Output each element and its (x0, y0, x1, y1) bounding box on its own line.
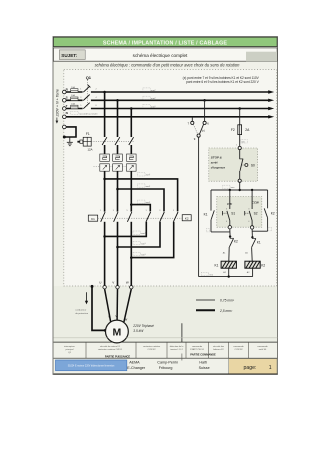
wire gauge label on K2 feed 1 (138, 173, 151, 177)
node T drop junction (130, 107, 133, 110)
svg-text:S1024 E moteur 220V bidirectio: S1024 E moteur 220V bidirectionnel inver… (68, 365, 115, 368)
node jumper tap on S bus (203, 99, 206, 102)
svg-text:Q1: Q1 (86, 75, 92, 80)
wire K2 feed line 1 (105, 179, 178, 212)
svg-text:contacteur rotation CW K1: contacteur rotation CW K1 (98, 348, 123, 351)
svg-text:AEMA: AEMA (129, 361, 140, 365)
wire F2 to STOP terminal 1 (239, 135, 241, 147)
svg-text:interrupteur: interrupteur (64, 345, 75, 348)
wire K1 pole2 to merge B (117, 222, 119, 247)
terminal S1 box bottom (228, 226, 231, 229)
svg-text:10A: 10A (71, 86, 75, 89)
legend thick wire 2.5mm (196, 309, 233, 313)
coil K1 (215, 261, 237, 268)
F1 thermal element pole 2 (113, 154, 123, 161)
wire gauge label below STOP (223, 185, 235, 189)
supply terminal R (63, 87, 69, 93)
header green title bar (53, 37, 277, 46)
wire K2 feed line 3 (131, 205, 150, 212)
wire K2 feed line 2 (118, 189, 165, 211)
company country Haiti Suisse (199, 361, 210, 371)
breaker F1 contact pole 2 (115, 137, 120, 145)
node branch CW join (229, 235, 231, 237)
wire K1 aux branch drop (210, 190, 212, 211)
legend cell S0 text (257, 346, 268, 351)
svg-text:N: N (66, 111, 68, 115)
contactor K1 coil-link box (88, 215, 97, 221)
svg-text:START CW S1: START CW S1 (190, 348, 205, 351)
mechanical linkage dashes K1 K2 (98, 217, 183, 219)
node split S2 (251, 189, 253, 191)
terminal 6 (203, 121, 209, 125)
svg-text:Haïti: Haïti (199, 361, 207, 365)
svg-text:mm²: mm² (141, 253, 146, 256)
svg-text:F1: F1 (86, 132, 90, 136)
svg-text:V: V (115, 314, 117, 318)
aux contact K2 (hold) (264, 208, 275, 231)
node coil K1 on bottom rail (228, 275, 230, 277)
svg-text:S2: S2 (254, 211, 258, 215)
contactor K2 main contact 1 (146, 210, 151, 222)
title block top border (54, 341, 278, 343)
wire T bus to fuse F2 (239, 109, 241, 125)
legend cell detection text (170, 345, 184, 351)
wire K1 pole1 to merge A (104, 222, 106, 237)
motor M1 (106, 320, 129, 343)
svg-text:principal: principal (66, 348, 74, 351)
pushbutton S1 CW (222, 211, 235, 226)
legend cell K2 text (143, 345, 161, 351)
svg-text:K2: K2 (271, 212, 275, 216)
svg-text:K1: K1 (91, 217, 95, 221)
svg-text:1: 1 (269, 365, 272, 371)
svg-text:conducteur: conducteur (75, 309, 86, 312)
svg-text:mm²: mm² (146, 201, 151, 204)
pin A2 coil K1 (223, 268, 228, 276)
svg-text:V: V (112, 281, 114, 285)
svg-text:2,5 mm²: 2,5 mm² (219, 309, 233, 313)
legend cell Q1 text (64, 345, 75, 354)
svg-text:10A: 10A (71, 94, 75, 97)
title block faint upper rule (54, 337, 278, 339)
contactor K2 main contact 3 (173, 210, 178, 222)
wire phase W down (130, 258, 132, 286)
svg-text:d'urgence: d'urgence (211, 166, 226, 170)
wire phase drop L3 (130, 109, 132, 138)
svg-text:mm²: mm² (146, 185, 151, 188)
wire K2 aux to S2 branch (252, 230, 268, 232)
svg-text:sécurité des: sécurité des (213, 345, 224, 348)
svg-text:W: W (126, 281, 129, 285)
motor terminal U (99, 281, 106, 289)
svg-text:mm: mm (209, 274, 213, 276)
wire gauge label on K2 feed 3 (138, 200, 151, 204)
breaker F1 contact pole 3 (129, 137, 134, 145)
svg-text:page:: page: (244, 365, 257, 371)
node split center (239, 189, 241, 191)
wire phase 2 F1 to K1 (117, 171, 119, 211)
wire S2 drop into box (251, 190, 253, 209)
legend cell F1 K1 text (98, 345, 123, 351)
jumper link 6 to 9 (199, 124, 203, 134)
wire gauge label on T bus (143, 104, 156, 108)
zone divider line (181, 323, 183, 342)
svg-text:SUJET:: SUJET: (61, 53, 77, 58)
Q1 pole T blade (80, 103, 97, 109)
terminal on STOP box bottom (238, 179, 241, 182)
interlock contact K1 (NC) (252, 237, 261, 247)
supply terminal S (63, 96, 68, 102)
svg-text:Camp-Perrin: Camp-Perrin (157, 361, 178, 365)
wire S1 to interlock (229, 229, 231, 237)
svg-text:K2: K2 (261, 264, 265, 268)
wire F1 pole 3 lower lead (130, 145, 132, 154)
aux contact K1 (hold) (204, 210, 215, 232)
svg-text:E-Changer: E-Changer (127, 366, 146, 370)
pin A1 coil K2 (245, 247, 252, 261)
svg-text:mm²: mm² (146, 174, 151, 177)
svg-text:12A: 12A (88, 147, 93, 151)
wire S0 to control rail split (239, 182, 241, 190)
company name AEMA (127, 361, 146, 371)
svg-text:mm²: mm² (151, 105, 156, 108)
F1 magnetic element pole 3 (127, 164, 137, 171)
svg-text:tension L1 L2: tension L1 L2 (170, 348, 183, 351)
wire K2 pole2 to merge B (118, 222, 161, 247)
wire N line full run with arrow (66, 115, 274, 118)
node merge B (116, 246, 119, 249)
PE conductor note text (75, 309, 88, 315)
wire control left rail (198, 137, 200, 276)
work area dashed border (64, 70, 277, 287)
contactor K2 coil-link box (182, 215, 191, 221)
supply terminal T (63, 104, 68, 110)
svg-text:Fribourg: Fribourg (159, 366, 173, 370)
svg-text:STOP &: STOP & (211, 155, 222, 159)
svg-text:schéma électrique : commande d: schéma électrique : commande d'un petit … (95, 63, 241, 68)
wire phase S bus with arrow (91, 99, 274, 102)
motor breaker F1 (77, 132, 133, 151)
legend cell S1 text (190, 346, 205, 351)
wire phase R bus with arrow (91, 90, 274, 93)
F1 magnetic element pole 2 (113, 164, 123, 171)
terminal on STOP box top (238, 146, 241, 149)
node PE junction (63, 136, 66, 139)
jumper dashed option 7 to 9 (193, 124, 197, 134)
svg-text:schéma électrique complet: schéma électrique complet (133, 53, 188, 58)
svg-text:PARTIE PUISSANCE: PARTIE PUISSANCE (105, 354, 130, 358)
wire gauge label on K2 feed 2 (138, 184, 151, 188)
svg-text:0,75 mm²: 0,75 mm² (220, 299, 235, 303)
node PE at frame border (91, 285, 94, 288)
svg-text:contacteur rotation: contacteur rotation (143, 345, 161, 348)
node F2 tap on T bus (238, 107, 241, 110)
page number box (229, 359, 277, 374)
wire K2 aux branch drop (267, 190, 269, 208)
Q1 pole S blade (80, 95, 97, 101)
wire control split rail (211, 189, 268, 191)
fuse F-R (71, 86, 78, 92)
wire S bus to terminal 6 (204, 100, 206, 121)
terminal S2 box bottom (250, 226, 253, 229)
svg-text:arrêt S0: arrêt S0 (259, 348, 267, 351)
svg-text:3.5 kW: 3.5 kW (133, 329, 144, 333)
wire phase T bus with arrow (91, 107, 274, 110)
company place Camp-Perrin (157, 361, 178, 371)
svg-text:K1: K1 (215, 264, 219, 268)
ground earth symbol (67, 137, 73, 146)
wire F1 pole 2 lower lead (117, 145, 119, 154)
contactor K1 main contact 3 (127, 210, 132, 222)
wire gauge label on S bus (143, 96, 156, 100)
svg-text:K1: K1 (204, 212, 208, 216)
divider between columns row 2 (181, 354, 183, 361)
svg-text:de protection: de protection (75, 312, 88, 315)
wire R terminal to fuse (66, 91, 83, 93)
svg-text:T: T (66, 104, 68, 108)
svg-text:Suisse: Suisse (199, 366, 210, 370)
fuse F2 2A (231, 125, 250, 135)
svg-text:CCW K2: CCW K2 (147, 349, 156, 351)
title block cell dividers row 1 (86, 342, 249, 358)
terminal 9 (194, 134, 200, 141)
svg-text:220V Triphasé: 220V Triphasé (132, 324, 154, 328)
pin A2 coil K2 (247, 268, 253, 276)
svg-text:CCW: CCW (252, 201, 260, 205)
wire motor lead V (116, 289, 118, 320)
subject row (53, 48, 277, 61)
svg-text:F2: F2 (231, 128, 235, 132)
svg-text:W: W (125, 318, 128, 322)
wire K1 aux to S1 branch (211, 231, 230, 233)
legend cell S2 text (233, 346, 244, 351)
wire PE loop (64, 127, 76, 137)
svg-text:S1: S1 (231, 211, 235, 215)
breaker F1 contact pole 1 (102, 137, 107, 145)
svg-text:U: U (108, 315, 110, 319)
svg-text:mm: mm (241, 142, 245, 144)
wire S terminal to fuse (66, 99, 83, 101)
node merge C (130, 256, 133, 259)
svg-text:PARTIE COMMANDE: PARTIE COMMANDE (190, 352, 216, 356)
motor terminal V (112, 281, 119, 289)
svg-text:mm: mm (231, 187, 235, 189)
svg-text:SCHEMA / IMPLANTATION / LISTE: SCHEMA / IMPLANTATION / LISTE / CABLAGE (103, 40, 228, 46)
wire phase U down (104, 236, 106, 285)
fuse F-S (71, 94, 78, 100)
motor terminal W (126, 281, 133, 289)
wire gauge label at K1 aux corner (206, 229, 209, 232)
svg-text:U: U (99, 281, 101, 285)
pushbutton S0 (239, 150, 255, 179)
svg-text:raccordé au neutre: raccordé au neutre (79, 112, 98, 115)
wire K1 pole3 to merge C (130, 222, 132, 258)
svg-text:bobines F2: bobines F2 (213, 349, 224, 351)
svg-text:commande: commande (192, 346, 203, 348)
wire phase drop L2 (117, 100, 119, 137)
wire gauge label at K2 aux corner (268, 227, 272, 230)
node split S1 (229, 189, 231, 191)
node PE at motor frame (104, 329, 107, 332)
wire gauge label on R bus (143, 88, 156, 92)
svg-text:(x): (x) (202, 128, 205, 132)
net label 220V + N + Terre (vertical) (55, 89, 59, 124)
svg-text:10A: 10A (71, 102, 75, 105)
svg-text:S0: S0 (251, 164, 255, 168)
wire K2 pole3 to merge C (131, 222, 173, 258)
svg-text:sécurité du moteur F1: sécurité du moteur F1 (100, 345, 121, 348)
wire F1 pole 1 lower lead (104, 145, 106, 154)
wire control bottom rail (199, 276, 253, 278)
svg-text:M: M (113, 327, 122, 339)
wire gauge label on merge C (133, 252, 146, 256)
STOP emergency dashed box (209, 148, 258, 181)
node merge A (103, 235, 106, 238)
CW CCW pushbutton dashed box (217, 197, 262, 228)
svg-text:mm²: mm² (141, 242, 146, 245)
svg-text:mm²: mm² (151, 89, 156, 92)
F1 thermal element pole 1 (100, 154, 110, 161)
wire motor lead U (105, 289, 111, 322)
wire PE to motor frame (92, 286, 105, 330)
disconnector Q1 (86, 75, 92, 107)
wire K2 pole1 to merge A (105, 222, 147, 237)
wire T terminal to fuse (66, 108, 83, 110)
wire phase V down (117, 247, 119, 286)
svg-text:220V + N + Terre: 220V + N + Terre (55, 89, 59, 117)
svg-text:K2: K2 (234, 240, 238, 244)
svg-text:détection de la: détection de la (170, 345, 184, 348)
wire N bus to terminal 7 (191, 117, 193, 122)
coil K2 (245, 261, 266, 268)
legend thin wire 0.75mm (196, 299, 235, 303)
svg-text:mm²: mm² (141, 232, 146, 235)
svg-text:pont entre 6 et 9 si les bobin: pont entre 6 et 9 si les bobines K1 et K… (186, 80, 260, 84)
title block bottom border (54, 373, 278, 375)
contactor K1 main contact 1 (100, 210, 105, 222)
svg-text:arrêt: arrêt (211, 160, 219, 164)
terminal 7 (188, 121, 194, 125)
wire gauge label on merge B (133, 241, 146, 245)
note (x) pont entre 7 et 9 (183, 76, 260, 84)
svg-text:K2: K2 (185, 217, 189, 221)
motor value label 220V Triphase (132, 324, 154, 333)
node S drop junction (116, 99, 119, 102)
wire phase drop L1 (104, 92, 106, 137)
document id blue box (56, 360, 127, 371)
node tap to K2 line 3 (130, 203, 133, 206)
contactor K1 main contact 2 (113, 210, 118, 222)
wire gauge label on bottom rail (201, 272, 213, 276)
Q1 pole R blade (80, 85, 97, 93)
legend cell F2 text (213, 345, 225, 351)
wire gauge label below F2 (241, 140, 248, 144)
F1 magnetic linkage dashes (94, 165, 127, 167)
supply terminal N (63, 111, 68, 119)
wire motor lead W (124, 289, 131, 322)
wire phase 1 F1 to K1 (104, 171, 106, 211)
wire gauge label on merge A (133, 231, 146, 235)
F1 magnetic element pole 1 (100, 164, 110, 171)
svg-text:CCW S2: CCW S2 (234, 349, 243, 351)
pin A1 coil K1 (223, 247, 229, 261)
node tap to K2 line 2 (116, 188, 119, 191)
fuse F-T (71, 102, 78, 108)
svg-text:commande: commande (233, 346, 244, 348)
node branch CCW join (251, 236, 253, 238)
node tap to K2 line 1 (103, 178, 106, 181)
title block row divider (54, 357, 278, 359)
svg-text:mm²: mm² (151, 97, 156, 100)
svg-text:S: S (66, 96, 68, 100)
F1 thermal element pole 3 (127, 154, 137, 161)
svg-text:commande: commande (257, 346, 268, 348)
svg-text:K1: K1 (257, 240, 261, 244)
wire S1 drop into box (229, 190, 231, 209)
supply terminal PE (63, 125, 67, 129)
node R drop junction (103, 91, 106, 94)
label note on N wire (71, 111, 99, 115)
interlock contact K2 (NC) (229, 237, 238, 247)
wire phase 3 F1 to K1 (130, 171, 132, 211)
wire S2 to interlock (251, 229, 253, 237)
motor lead labels U V W (108, 314, 127, 322)
contactor K2 main contact 2 (159, 210, 164, 222)
subtitle line (95, 63, 241, 68)
ground arrow to earth (85, 292, 88, 304)
pushbutton S2 CCW (245, 211, 258, 226)
